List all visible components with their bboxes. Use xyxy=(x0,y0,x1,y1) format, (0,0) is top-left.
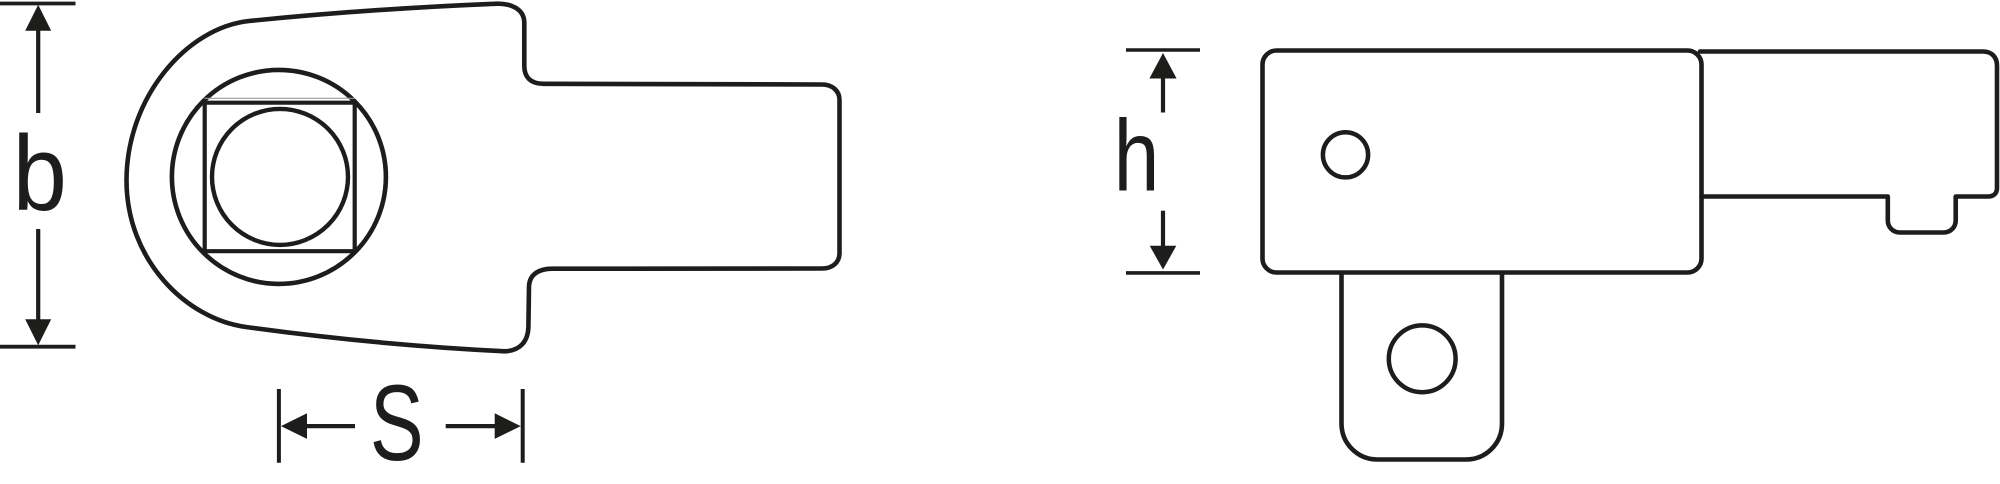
h dimension line lower segment xyxy=(1161,211,1165,246)
svg-text:S: S xyxy=(370,364,424,484)
b dimension line lower segment xyxy=(36,229,40,322)
b top extension tick xyxy=(0,2,76,6)
S left extension tick xyxy=(277,389,281,463)
S right extension tick xyxy=(521,389,525,463)
head outline (front view, tool body with tang) xyxy=(127,4,840,352)
h dimension line upper segment xyxy=(1161,76,1165,113)
dimension h xyxy=(1126,50,1200,273)
side view body rectangle xyxy=(1263,51,1702,273)
detent ball circle in stub xyxy=(1389,325,1456,392)
h bottom extension tick xyxy=(1126,271,1200,275)
b dimension line upper segment xyxy=(36,29,40,114)
S right arrow line xyxy=(446,424,497,428)
S left arrow line xyxy=(305,424,355,428)
side view tang with detent tab xyxy=(1700,52,1997,233)
svg-text:h: h xyxy=(1114,98,1160,212)
dimension S xyxy=(279,389,523,463)
b arrow down xyxy=(25,319,51,345)
square drive opening xyxy=(205,103,355,252)
side view hole xyxy=(1323,132,1368,177)
S arrow right xyxy=(495,413,521,439)
side view square drive stub xyxy=(1342,273,1503,460)
boss circle (front view) xyxy=(172,70,386,284)
inner circle of square drive xyxy=(212,109,348,245)
h arrow up xyxy=(1149,53,1176,79)
b arrow up xyxy=(25,5,51,31)
b bottom extension tick xyxy=(0,345,76,349)
h top extension tick xyxy=(1126,48,1200,52)
chamfer line above square xyxy=(205,97,355,99)
dimension b xyxy=(0,4,76,347)
svg-text:b: b xyxy=(13,114,67,233)
S arrow left xyxy=(281,413,307,439)
h arrow down xyxy=(1150,246,1177,270)
